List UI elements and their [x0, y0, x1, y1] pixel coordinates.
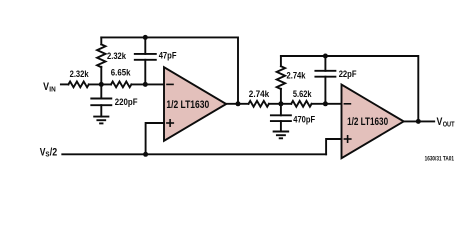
resistor R5 5.62k	[291, 101, 311, 107]
op-amp U2 1/2 LT1630	[342, 85, 404, 159]
junction dot U2 output / feedback	[416, 119, 421, 124]
wire VIN stub	[61, 83, 69, 85]
wire R4 to node C	[269, 103, 291, 105]
svg-text:47pF: 47pF	[159, 50, 177, 60]
wire R6 to top rail 2	[280, 56, 282, 66]
node A junction dot	[99, 82, 104, 87]
node B junction dot	[143, 82, 148, 87]
svg-text:1/2 LT1630: 1/2 LT1630	[166, 99, 209, 111]
resistor R3 2.32k (vertical feedback)	[97, 44, 105, 67]
node C junction dot	[278, 101, 283, 106]
capacitor C3 470pF	[271, 104, 291, 132]
wire VS/2 bias rail	[62, 153, 326, 155]
svg-text:1630/31 TA01: 1630/31 TA01	[425, 155, 455, 162]
svg-text:220pF: 220pF	[115, 97, 138, 107]
wire VS/2 up to U1 plus input	[146, 123, 164, 154]
capacitor C1 220pF	[91, 84, 111, 116]
ground G2	[274, 132, 289, 139]
resistor R1 2.32k (series input)	[68, 82, 88, 88]
U1 minus sign	[167, 83, 173, 85]
wire node A up to R3	[100, 67, 102, 85]
svg-text:1/2 LT1630: 1/2 LT1630	[347, 116, 388, 128]
svg-text:22pF: 22pF	[339, 69, 357, 79]
junction dot VS/2 / U1 plus branch	[143, 152, 148, 157]
ground G1	[94, 117, 108, 124]
svg-text:/2: /2	[50, 146, 57, 158]
resistor R2 6.65k	[111, 82, 131, 88]
junction dot U1 output / feedback	[236, 101, 241, 106]
svg-text:470pF: 470pF	[293, 114, 315, 124]
node VIN label	[43, 81, 56, 94]
U2 minus sign	[344, 103, 350, 105]
svg-text:2.74k: 2.74k	[249, 89, 270, 99]
wire R2 to op-amp minus input	[131, 83, 164, 85]
U2 plus sign	[344, 136, 350, 142]
wire U1 output	[226, 103, 248, 105]
svg-text:2.74k: 2.74k	[287, 71, 307, 81]
wire R3 to top rail	[100, 37, 102, 44]
junction dot rail 2 / C4 top	[323, 54, 328, 59]
wire R5 to op-amp 2 minus input	[312, 103, 342, 105]
svg-text:6.65k: 6.65k	[111, 68, 132, 78]
wire U2 output to VOUT	[404, 120, 435, 122]
wire top rail stage 1	[101, 37, 238, 103]
junction dot C4 bottom	[323, 101, 328, 106]
wire node C up to R6	[280, 89, 282, 104]
wire VS/2 up to U2 plus input	[326, 139, 341, 154]
wire top rail stage 2	[281, 56, 418, 121]
svg-text:2.32k: 2.32k	[70, 69, 90, 79]
svg-text:5.62k: 5.62k	[293, 89, 312, 99]
svg-text:OUT: OUT	[443, 120, 455, 129]
resistor R6 2.74k (vertical feedback)	[277, 66, 285, 89]
U1 plus sign	[167, 120, 173, 126]
node VOUT label	[437, 116, 455, 129]
resistor R4 2.74k (series)	[249, 101, 269, 107]
svg-text:IN: IN	[49, 84, 55, 93]
node VS/2 label	[40, 146, 58, 158]
capacitor C2 47pF	[135, 37, 156, 84]
junction dot rail 1 / C2 top	[143, 35, 148, 40]
capacitor C4 22pF	[315, 56, 335, 104]
svg-text:2.32k: 2.32k	[107, 51, 127, 61]
op-amp U1 1/2 LT1630	[164, 67, 226, 141]
wire node A to R2	[89, 83, 111, 85]
